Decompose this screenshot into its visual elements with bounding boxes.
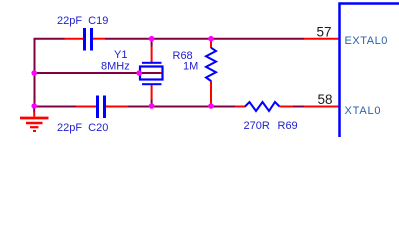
ground: [20, 107, 49, 132]
node XTAL0 pin name: [345, 105, 382, 117]
wire crystal top stub: [151, 39, 153, 47]
pin number 58: [318, 92, 333, 107]
node junction dot bottom wire / crystal: [149, 103, 155, 109]
pin number 57: [317, 25, 332, 40]
node junction dot top wire / crystal: [149, 36, 155, 42]
crystal Y1: [101, 47, 163, 101]
svg-text:R69: R69: [278, 120, 298, 132]
wire top net EXTAL0 horizontal: [34, 38, 305, 40]
svg-text:270R: 270R: [244, 120, 270, 132]
resistor R69: [235, 102, 298, 132]
wire ground rail left vertical: [34, 39, 36, 107]
pin 57 wire: [304, 38, 339, 40]
wire bottom net XTAL0 horizontal: [34, 106, 305, 108]
svg-text:57: 57: [317, 25, 332, 40]
svg-text:22pF C20: 22pF C20: [57, 122, 108, 134]
capacitor C19: [57, 15, 108, 51]
resistor R68: [173, 39, 217, 104]
svg-text:58: 58: [318, 92, 333, 107]
capacitor C20: [57, 96, 128, 135]
svg-text:EXTAL0: EXTAL0: [345, 35, 388, 47]
wire middle crystal-case to ground: [34, 72, 164, 74]
pin 58 wire: [304, 106, 339, 108]
svg-text:22pF C19: 22pF C19: [57, 15, 108, 27]
wire crystal bottom stub: [151, 100, 153, 107]
node junction dot ground rail / bottom wire: [31, 103, 37, 109]
svg-text:1M: 1M: [183, 60, 198, 72]
node EXTAL0 pin name: [345, 35, 388, 47]
node junction dot bottom wire / R68: [208, 103, 214, 109]
op-amp U? IC box edge: [340, 4, 399, 138]
svg-text:XTAL0: XTAL0: [345, 105, 382, 117]
svg-text:8MHz: 8MHz: [101, 60, 130, 72]
node junction dot top wire / R68: [208, 36, 214, 42]
node junction dot crystal left / middle wire: [136, 70, 142, 76]
node junction dot ground rail / middle wire: [31, 70, 37, 76]
svg-text:Y1: Y1: [114, 49, 127, 61]
